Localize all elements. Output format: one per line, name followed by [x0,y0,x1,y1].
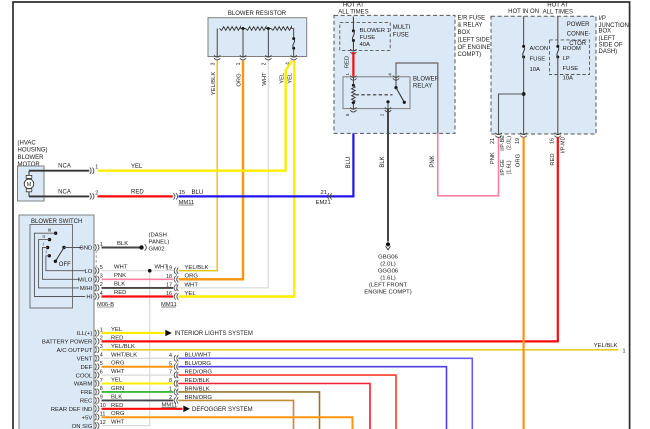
svg-text:5: 5 [169,361,172,367]
switch row +5V pin 11 wire ORG [82,411,125,421]
resistor chain inside blower resistor [217,27,294,57]
svg-text:1: 1 [95,165,98,171]
switch row REC pin 9 wire BLK [80,394,122,404]
power connector dashed box [550,40,590,75]
svg-text:DASH): DASH) [599,49,618,55]
I/P box pin 16 [549,133,566,166]
svg-text:BLK: BLK [114,282,125,288]
svg-text:PNK: PNK [490,152,496,164]
switch row BATTERY POWER pin 2 wire RED [42,335,124,345]
svg-text:RED: RED [345,56,351,68]
switch row REAR DEF IND pin 10 wire RED [51,403,124,413]
svg-text:OFF: OFF [59,262,71,268]
wire RED fuse to relay pin 1 [345,52,354,77]
svg-text:2: 2 [262,62,268,65]
thermal fuse inside blower resistor [292,29,295,57]
switch row LO pin 5 wire WHT [84,264,173,275]
svg-text:ILL(+): ILL(+) [77,331,93,337]
switch row A/C OUTPUT pin 3 wire YEL/BLK [57,344,135,354]
wire BLK from relay pin 2 to ground [380,109,388,242]
svg-text:3: 3 [211,62,217,65]
svg-text:FUSE: FUSE [563,66,579,72]
switch position III contact [34,228,94,297]
svg-text:BLK: BLK [380,156,386,167]
svg-text:REAR DEF IND: REAR DEF IND [51,407,93,413]
svg-text:BLU: BLU [346,157,352,169]
svg-text:MULTI: MULTI [393,25,411,31]
svg-text:SIDE OF: SIDE OF [599,43,623,49]
svg-text:YEL/BLK: YEL/BLK [111,344,135,350]
connector MM11 row pin 1 wire BRN/BLK [169,386,210,395]
svg-text:& RELAY: & RELAY [458,23,483,29]
svg-text:1: 1 [169,387,172,393]
wire WHT from resistor pin 2 to connector MM11 pin 17 [179,61,269,288]
wire YEL/BLK A/C output to right edge [102,343,626,355]
fuse BLOWER 1 FUSE 40A [352,17,390,51]
svg-text:ALL TIMES: ALL TIMES [543,10,573,16]
wire BLK to ground GM02 [102,241,140,248]
svg-text:2: 2 [169,395,172,401]
svg-text:ORG: ORG [516,153,522,167]
svg-text:+5V: +5V [82,415,93,421]
svg-text:WARM: WARM [74,382,93,388]
multi fuse exit connector [350,49,356,54]
blower motor label [18,141,48,169]
wire NCA motor pin 1 [29,164,89,171]
wire ORG from I/P pin 19 to bottom edge [522,137,524,429]
svg-text:I/P-BE: I/P-BE [500,135,506,151]
svg-text:8: 8 [169,378,172,384]
wire WHT row COOL pin side [102,374,174,376]
svg-text:(LEFT: (LEFT [599,36,616,42]
svg-text:GRN: GRN [111,386,124,392]
ground GBG06 [364,242,411,295]
svg-text:REC: REC [80,399,93,405]
svg-text:YEL: YEL [185,291,197,297]
connector EM21 pin 21 [316,190,332,206]
svg-text:FRE: FRE [81,390,93,396]
switch row WARM pin 7 wire YEL [74,378,123,388]
svg-text:COOL: COOL [76,373,93,379]
svg-text:PNK: PNK [114,273,126,279]
svg-text:4: 4 [169,353,172,359]
wire YEL/BLK from resistor pin 3 to connector MM11 pin 19 [179,61,218,271]
switch row HI pin 4 wire RED [85,290,173,301]
svg-text:HOT IN ON: HOT IN ON [508,9,539,15]
wire WHT on sig joins WHT vertical [102,425,150,427]
svg-text:21: 21 [490,138,496,144]
fuse ROOM LP FUSE 10A [556,16,581,134]
wire YEL row WARM pin side [102,383,174,385]
connector MM11 row pin 19 wire YEL/BLK [166,265,208,274]
svg-text:GGG06: GGG06 [378,269,399,275]
switch pin 1 (GND) [95,242,103,251]
switch mechanism box [30,225,73,309]
relay pin 2 [379,107,391,116]
connector MM11 row pin 16 wire YEL [166,291,196,300]
svg-text:ORG: ORG [236,73,242,87]
wire BLU from MM11 to blower relay pin 5 [179,109,354,196]
wire BRN/BLK to bottom edge [178,392,319,429]
svg-text:BLOWER RESISTOR: BLOWER RESISTOR [228,11,287,17]
svg-text:A/CON: A/CON [530,46,549,52]
svg-text:COMPT): COMPT) [458,52,482,58]
svg-text:POWER: POWER [567,22,590,28]
connector MM11 row pin 7 wire RED/ORG [169,370,212,379]
svg-text:I/P: I/P [599,16,606,22]
label HOT AT ALL TIMES (I/P box) [543,3,573,16]
svg-text:BLU: BLU [192,190,204,196]
junction dot WHT on LO row [148,269,152,273]
connector MM11 row pin 18 wire ORG [166,274,198,283]
svg-text:1: 1 [623,349,626,355]
wire BRN/ORG to bottom edge [178,400,293,429]
svg-text:(1.6L): (1.6L) [506,160,512,174]
switch row DEF pin 5 wire ORG [81,361,125,371]
wire gray from relay pin 4 inside E/R box [396,63,438,133]
svg-text:(LEFT SIDE: (LEFT SIDE [458,38,490,44]
svg-text:BLK: BLK [117,241,128,247]
connector MM11 row pin 8 wire RED/BLK [169,378,210,387]
motor pin 2 connector [90,190,99,199]
svg-text:RED: RED [131,190,144,196]
svg-text:BATTERY POWER: BATTERY POWER [42,340,92,346]
svg-text:DEF: DEF [81,365,93,371]
wire RED/BLK to bottom edge [178,384,370,429]
connector MM11 row pin 17 wire WHT [166,282,198,291]
svg-text:E/R FUSE: E/R FUSE [458,16,486,22]
relay coil [352,77,356,109]
svg-text:GBG06: GBG06 [378,255,398,261]
switch row VENT pin 4 wire WHT/BLK [77,352,138,362]
svg-text:I/P-MD: I/P-MD [560,137,566,154]
multi fuse dashed box [340,22,411,50]
svg-text:1: 1 [345,73,350,76]
svg-text:OF ENGINE: OF ENGINE [458,45,491,51]
svg-text:5: 5 [345,113,350,116]
svg-text:DEFOGGER SYSTEM: DEFOGGER SYSTEM [192,407,253,413]
switch row FRE pin 8 wire GRN [81,386,125,396]
relay pin 4 [387,73,399,81]
svg-text:19: 19 [515,138,521,144]
svg-text:RED: RED [114,290,126,296]
wire RED rear def ind to defogger [102,408,183,410]
svg-text:17: 17 [166,283,172,289]
svg-text:WHT: WHT [111,369,125,375]
connector MM11 row pin 2 wire BRN/ORG [169,395,212,404]
blower relay box [343,77,440,109]
svg-text:GND: GND [79,246,92,252]
svg-text:I/P-GE: I/P-GE [500,159,506,176]
svg-text:BLOWER 1: BLOWER 1 [360,28,390,34]
svg-text:2: 2 [379,113,384,116]
svg-text:VENT: VENT [77,357,93,363]
svg-text:EM21: EM21 [316,200,331,206]
wire BLU/ORG to bottom edge [178,367,446,429]
svg-text:7: 7 [169,370,172,376]
wire WHT/BLK row VENT pin side [102,357,174,359]
svg-text:I: I [46,250,47,255]
svg-text:HOUSING): HOUSING) [18,148,48,154]
svg-text:NCA: NCA [58,189,71,195]
svg-text:YEL/BLK: YEL/BLK [185,265,209,271]
switch position LO contact [46,250,94,271]
svg-text:BLOWER SWITCH: BLOWER SWITCH [31,219,82,225]
label MM11 lower [162,403,178,409]
svg-text:INTERIOR LIGHTS SYSTEM: INTERIOR LIGHTS SYSTEM [175,331,253,337]
I/P box label [599,16,629,55]
svg-text:WHT: WHT [114,264,128,270]
relay pin 1 [345,73,357,81]
wire WHT vertical from LO junction down to pin 12 row [149,271,151,426]
svg-text:(1.6L): (1.6L) [380,276,395,282]
label M06-B [97,302,114,308]
arrow to defogger system [183,406,252,414]
svg-text:WHT: WHT [262,72,268,86]
svg-text:BLOWER: BLOWER [18,155,45,161]
svg-text:ON SIG: ON SIG [72,424,93,429]
svg-text:II: II [42,234,45,239]
svg-text:WHT: WHT [185,282,199,288]
svg-text:16: 16 [549,138,555,144]
switch row M/HI pin 2 wire BLK [79,282,173,293]
svg-text:BLOWER: BLOWER [413,77,440,83]
svg-text:(LEFT FRONT: (LEFT FRONT [369,283,408,289]
svg-text:15: 15 [179,190,185,196]
wire BLU/WHT to bottom edge [178,358,472,429]
svg-text:HOT AT: HOT AT [547,3,568,9]
relay actuation dashed link [356,94,393,96]
E/R box label [458,16,491,59]
svg-text:4: 4 [387,73,392,76]
switch position II contact [39,234,94,288]
connector MM11 row pin 4 wire BLU/WHT [169,353,211,362]
svg-text:M: M [27,182,32,188]
power connector label [567,22,591,47]
svg-text:ORG: ORG [185,274,199,280]
wire RED/ORG to bottom edge [178,375,396,429]
svg-text:(DASH: (DASH [149,232,167,238]
svg-text:16: 16 [166,291,172,297]
connector MM11 row pin 5 wire BLU/ORG [169,361,211,370]
blower resistor pin 3 [211,55,221,65]
wire ORG from resistor pin 1 to connector MM11 pin 18 [179,61,244,280]
blower resistor pin 4 [286,55,297,65]
svg-text:18: 18 [166,274,172,280]
connector dashed link M06-B upper [95,251,97,295]
svg-text:LP: LP [563,56,570,62]
svg-text:BOX: BOX [458,30,471,36]
label GND [82,245,93,251]
wire ORG +5V to bottom edge [102,417,353,429]
svg-text:(HVAC: (HVAC [18,141,37,147]
fuse A/CON FUSE 10A [522,16,548,134]
svg-text:GM02: GM02 [149,246,165,252]
switch row ON SIG pin 12 wire WHT [72,420,125,429]
svg-text:YEL: YEL [288,72,294,84]
svg-text:I: I [43,242,44,247]
switch row COOL pin 6 wire WHT [76,369,125,379]
svg-text:10A: 10A [563,76,574,82]
label HOT AT ALL TIMES (E/R box) [338,3,368,16]
label MM11 upper [161,302,177,308]
junction node in I/P box [499,92,526,134]
blower resistor box [208,11,307,56]
svg-text:ROOM: ROOM [563,46,581,52]
svg-text:1: 1 [236,62,242,65]
svg-text:YEL: YEL [131,164,143,170]
connector MM11 pin 15 [173,190,203,206]
wire YEL ILL(+) to interior lights [102,332,165,334]
motor pin 1 connector [90,165,99,174]
svg-text:YEL: YEL [279,72,285,84]
wire PNK from E/R box to I/P junction box pin 21 [430,133,498,195]
wire GRN row FRE pin side [102,391,174,393]
svg-text:M/HI: M/HI [80,286,93,292]
wire ORG row DEF pin side [102,366,174,368]
svg-text:LO: LO [84,269,92,275]
svg-text:40A: 40A [360,42,371,48]
svg-text:FUSE: FUSE [393,32,409,38]
wire RED from motor pin 2 to connector MM11 [98,190,173,197]
connector dashed link MM11 upper [175,274,177,295]
I/P junction box [491,16,596,134]
relay switch blade [386,77,406,109]
svg-text:WHT: WHT [155,264,169,270]
blower resistor pin 2 [262,55,272,65]
svg-text:ENGINE COMPT): ENGINE COMPT) [364,290,411,296]
switch position I contact [43,242,95,280]
blower switch box [19,215,94,429]
E/R fuse and relay box [334,15,455,133]
svg-text:NCA: NCA [58,164,71,170]
wire RED battery power to I/P pin 16 [102,137,558,341]
svg-text:RED: RED [550,153,556,165]
svg-text:PANEL): PANEL) [149,239,170,245]
wire YEL from resistor pin 4 to connector MM11 pin 16 [179,61,295,297]
svg-text:10A: 10A [530,67,541,73]
connector dashed link M06-B lower [95,336,97,424]
switch wiper OFF [54,246,94,268]
svg-text:BOX: BOX [599,29,612,35]
ground GM02 [139,232,169,252]
svg-text:21: 21 [321,190,327,196]
blower motor M1 [18,166,45,201]
wire BLK row REC pin side [102,399,174,401]
switch row ILL(+) pin 1 wire YEL [77,327,123,337]
blower resistor pin 1 [236,55,246,65]
svg-text:YEL/BLK: YEL/BLK [594,343,618,349]
switch row M/LO pin 3 wire PNK [78,273,173,284]
svg-text:YEL/BLK: YEL/BLK [211,72,217,96]
wire YEL diagonal from resistor pin 4 to blower motor pin 1 [98,61,293,171]
connector dashed link MM11 lower [175,361,177,398]
svg-text:ALL TIMES: ALL TIMES [338,10,368,16]
I/P box pin 21 [490,133,512,176]
svg-text:(2.0L): (2.0L) [506,136,512,150]
svg-text:HI: HI [86,295,92,301]
svg-text:(2.0L): (2.0L) [380,262,395,268]
svg-text:III: III [48,228,52,233]
svg-text:M/LO: M/LO [78,278,93,284]
svg-text:A/C OUTPUT: A/C OUTPUT [57,348,93,354]
svg-text:CONNE-: CONNE- [567,32,591,38]
arrow to interior lights system [165,330,253,338]
relay pin 5 [345,107,357,116]
wire NCA motor pin 2 [29,189,89,196]
svg-text:PNK: PNK [430,155,436,167]
svg-text:FUSE: FUSE [530,57,546,63]
svg-text:WHT/BLK: WHT/BLK [111,352,137,358]
svg-text:FUSE: FUSE [360,35,376,41]
svg-text:WHT: WHT [111,420,125,426]
svg-text:RELAY: RELAY [413,84,432,90]
svg-text:HOT AT: HOT AT [343,3,364,9]
I/P box pin 19 [515,133,527,167]
